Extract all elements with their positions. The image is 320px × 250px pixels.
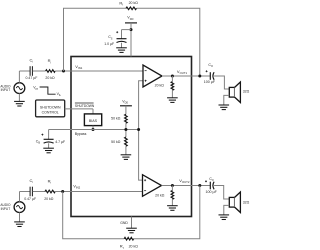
wire: [33, 191, 45, 193]
wire: [139, 81, 143, 180]
wire: [65, 109, 93, 114]
wire: [19, 213, 21, 222]
wire: [137, 8, 200, 76]
wire: [224, 205, 230, 214]
svg-text:VIL: VIL: [57, 92, 62, 97]
svg-text:20 kΩ: 20 kΩ: [129, 1, 139, 5]
svg-text:CO: CO: [208, 63, 213, 68]
capacitor CS: [104, 31, 126, 46]
capacitor CB: [36, 134, 65, 145]
node VIN2 junction: [61, 190, 64, 193]
ground: [14, 101, 25, 106]
wire: [162, 185, 211, 187]
wire: [55, 191, 142, 193]
wire: [125, 123, 127, 137]
svg-text:CO: CO: [209, 177, 214, 182]
ground: [219, 105, 230, 110]
wire: [214, 186, 229, 200]
svg-text:INPUT: INPUT: [1, 88, 11, 92]
svg-text:CB: CB: [36, 139, 41, 144]
wire: [92, 126, 94, 130]
label Bypass: [75, 132, 87, 136]
svg-text:Ci: Ci: [30, 178, 34, 184]
wire: [55, 70, 143, 72]
svg-text:20 kΩ: 20 kΩ: [155, 194, 165, 198]
wire: [20, 192, 30, 202]
wire: [130, 23, 132, 57]
audio source V2: [0, 202, 25, 213]
svg-text:VDD: VDD: [122, 100, 128, 105]
resistor Rf (bottom): [120, 237, 138, 249]
IC outline U1: [71, 57, 192, 217]
label VOUT1: [177, 69, 188, 75]
wire: [162, 75, 210, 77]
node bias junction: [92, 128, 95, 131]
capacitor Co (bottom): [205, 177, 218, 194]
wire: [214, 76, 229, 89]
wire: [131, 217, 133, 229]
svg-text:Rf: Rf: [120, 244, 124, 250]
svg-text:SHUTDOWN: SHUTDOWN: [75, 104, 95, 108]
resistor Rf (top): [119, 0, 138, 9]
svg-text:1.0 µF: 1.0 µF: [104, 42, 114, 46]
svg-text:50 kΩ: 50 kΩ: [111, 117, 121, 121]
svg-text:50 kΩ: 50 kΩ: [111, 140, 121, 144]
wire: [48, 143, 50, 148]
svg-text:Rf: Rf: [119, 0, 123, 6]
label VIN1: [75, 64, 82, 70]
node VOUT2 junction: [171, 184, 174, 187]
speaker LS1: [229, 82, 249, 103]
wire: [19, 71, 30, 83]
capacitor Ci (bottom): [24, 178, 36, 201]
wire: [64, 8, 127, 71]
resistor Ri (bottom): [44, 179, 55, 201]
capacitor Co (top): [204, 63, 216, 84]
resistor 50k lower: [111, 137, 127, 146]
svg-text:0.47 µF: 0.47 µF: [24, 197, 36, 201]
svg-text:GND: GND: [120, 221, 128, 225]
svg-text:Ri: Ri: [48, 58, 52, 64]
label SHUTDOWN pin: [75, 103, 95, 108]
svg-text:INPUT: INPUT: [1, 207, 11, 211]
wire: [125, 146, 127, 154]
label GND pin: [120, 221, 128, 225]
label VOUT2: [179, 178, 190, 184]
ground: [116, 48, 127, 53]
op-amp A1: [143, 65, 162, 87]
node VIN1 junction: [62, 70, 65, 73]
ground: [167, 98, 178, 103]
svg-text:CONTROL: CONTROL: [42, 111, 59, 115]
resistor 20k load 2: [155, 186, 174, 206]
svg-text:100 µF: 100 µF: [204, 80, 216, 84]
power VDD rail: [125, 16, 137, 23]
wire: [122, 30, 132, 39]
svg-text:VOUT2: VOUT2: [179, 178, 190, 184]
svg-text:VDD: VDD: [127, 16, 133, 21]
node bias tap junction: [137, 128, 140, 131]
node feedback-out junction 1: [198, 75, 201, 78]
svg-text:20 kΩ: 20 kΩ: [44, 197, 54, 201]
resistor 20k load 1: [155, 76, 174, 98]
label VIN2: [73, 183, 80, 189]
svg-text:Ri: Ri: [48, 179, 52, 185]
ground: [126, 228, 137, 233]
svg-text:32Ω: 32Ω: [243, 201, 250, 205]
speaker LS2: [229, 192, 249, 213]
node VOUT1 junction: [171, 75, 174, 78]
svg-text:BIAS: BIAS: [89, 119, 98, 123]
wire: [18, 94, 20, 102]
svg-text:VIN1: VIN1: [75, 64, 82, 70]
ground: [43, 148, 54, 153]
svg-text:Bypass: Bypass: [75, 132, 87, 136]
wire: [48, 130, 50, 140]
svg-text:20 kΩ: 20 kΩ: [155, 83, 165, 87]
node divider junction: [124, 128, 127, 131]
op-amp A2: [143, 175, 162, 197]
svg-text:32Ω: 32Ω: [243, 90, 250, 94]
svg-text:20 kΩ: 20 kΩ: [45, 76, 55, 80]
svg-text:20 kΩ: 20 kΩ: [129, 244, 139, 248]
svg-text:VIN2: VIN2: [73, 183, 80, 189]
wire: [63, 192, 124, 239]
node feedback-out junction 2: [198, 184, 201, 187]
svg-text:CS: CS: [108, 35, 113, 40]
resistor 50k upper: [111, 114, 127, 123]
wire: [125, 106, 127, 114]
wire: [49, 129, 139, 131]
wire: [33, 70, 46, 72]
svg-text:0.47 µF: 0.47 µF: [26, 76, 38, 80]
ground: [219, 215, 230, 220]
shutdown control box: [36, 100, 65, 117]
block BIAS: [84, 114, 101, 126]
ground: [167, 206, 178, 211]
wire: [121, 43, 123, 48]
ground: [121, 155, 132, 160]
ground: [14, 222, 25, 227]
audio source V1: [0, 83, 24, 94]
svg-text:Ci: Ci: [30, 58, 34, 64]
svg-text:4.7 µF: 4.7 µF: [55, 140, 65, 144]
waveform VIH/VIL: [33, 86, 61, 97]
wire: [134, 186, 200, 239]
capacitor Ci (top): [26, 58, 38, 81]
power VDD internal: [120, 100, 132, 106]
wire: [224, 95, 230, 104]
svg-text:100 µF: 100 µF: [206, 190, 218, 194]
svg-text:VOUT1: VOUT1: [177, 69, 188, 75]
resistor Ri (top): [45, 58, 55, 80]
svg-text:VIH: VIH: [33, 86, 38, 91]
node VDD junction: [130, 28, 133, 31]
svg-text:SHUTDOWN: SHUTDOWN: [40, 106, 61, 110]
